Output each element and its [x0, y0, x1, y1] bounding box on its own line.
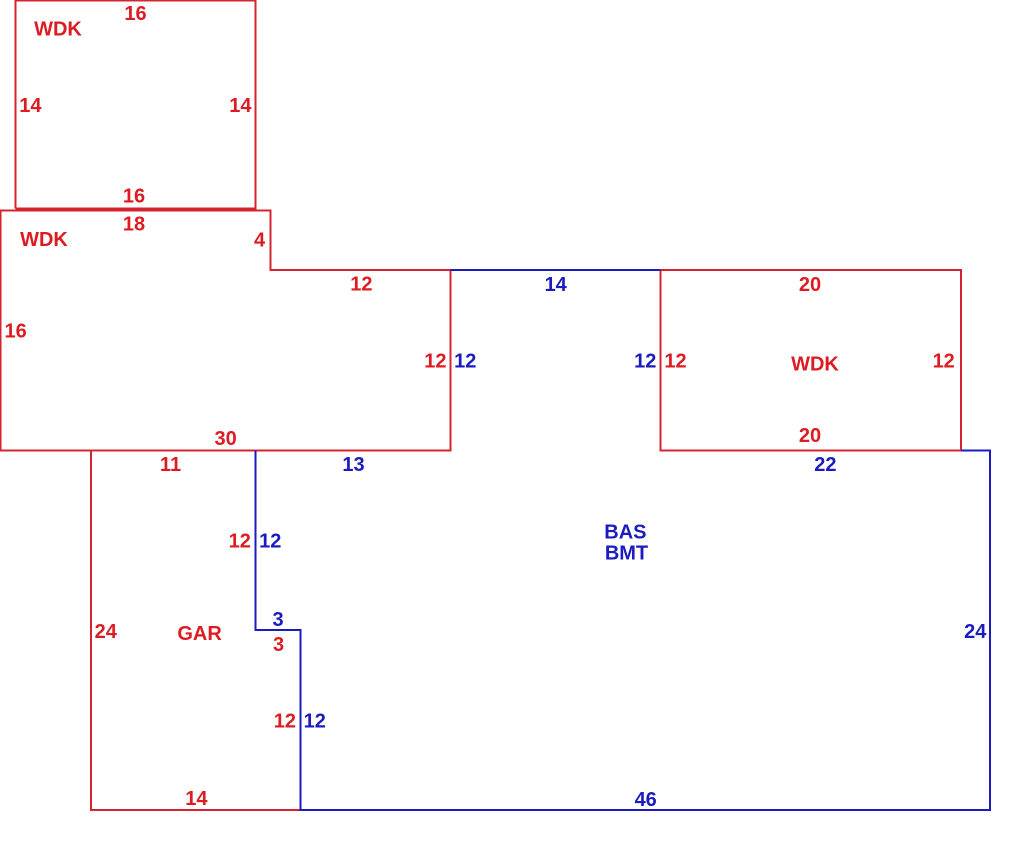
svg-text:18: 18: [123, 214, 145, 236]
svg-text:12: 12: [424, 350, 446, 372]
svg-text:11: 11: [160, 454, 181, 476]
svg-text:4: 4: [254, 230, 266, 252]
svg-text:14: 14: [19, 95, 42, 117]
svg-text:12: 12: [229, 530, 251, 552]
svg-text:12: 12: [933, 350, 955, 372]
wire basement top edge blue: [451, 269, 661, 271]
wire garage outline red: [91, 451, 301, 811]
svg-text:16: 16: [4, 321, 26, 343]
svg-text:30: 30: [214, 428, 236, 450]
svg-text:12: 12: [454, 350, 476, 372]
svg-text:24: 24: [964, 621, 987, 643]
svg-text:12: 12: [634, 350, 656, 372]
svg-text:3: 3: [273, 634, 284, 656]
svg-text:WDK: WDK: [34, 19, 82, 41]
svg-text:20: 20: [799, 425, 821, 447]
wire second WDK deck outline: [1, 211, 451, 451]
svg-text:12: 12: [350, 274, 372, 296]
svg-text:12: 12: [664, 350, 686, 372]
svg-text:12: 12: [259, 530, 281, 552]
wire top WDK deck outline: [16, 1, 256, 209]
svg-text:WDK: WDK: [20, 229, 68, 251]
svg-text:GAR: GAR: [177, 623, 222, 645]
svg-text:14: 14: [229, 95, 252, 117]
svg-text:WDK: WDK: [791, 354, 839, 376]
svg-text:12: 12: [304, 710, 326, 732]
svg-text:46: 46: [635, 789, 657, 811]
svg-text:20: 20: [799, 274, 821, 296]
svg-text:16: 16: [123, 186, 145, 208]
svg-text:16: 16: [124, 3, 146, 25]
wire right WDK deck outline: [661, 270, 961, 450]
svg-text:13: 13: [342, 454, 364, 476]
wire basement outline blue: [256, 450, 991, 810]
svg-text:24: 24: [95, 621, 118, 643]
svg-text:22: 22: [814, 454, 836, 476]
svg-text:BAS: BAS: [604, 521, 646, 543]
svg-text:14: 14: [185, 788, 208, 810]
svg-text:BMT: BMT: [605, 543, 648, 565]
svg-text:3: 3: [272, 609, 283, 631]
svg-text:12: 12: [274, 710, 296, 732]
svg-text:14: 14: [545, 274, 568, 296]
